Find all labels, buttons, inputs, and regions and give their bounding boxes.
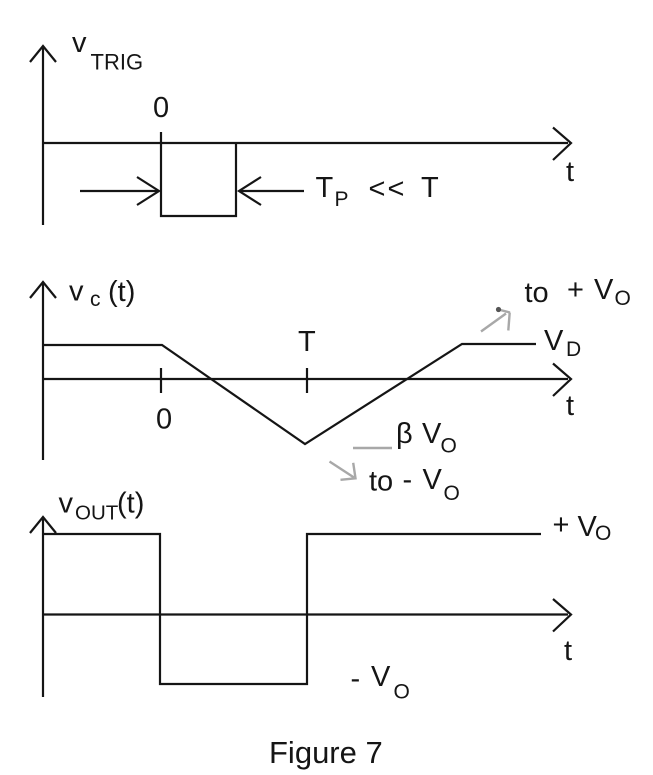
svg-text:0: 0 [156, 404, 172, 436]
svg-text:T: T [316, 172, 334, 204]
svg-text:T: T [298, 326, 316, 358]
svg-text:v: v [69, 276, 84, 308]
svg-text:O: O [615, 287, 631, 310]
svg-text:(t): (t) [117, 488, 144, 520]
svg-text:O: O [394, 681, 410, 704]
svg-text:v: v [72, 27, 87, 59]
svg-text:<: < [369, 173, 386, 205]
svg-text:v: v [59, 488, 74, 520]
svg-text:c: c [90, 288, 101, 311]
svg-text:V: V [371, 661, 391, 693]
svg-text:OUT: OUT [75, 502, 119, 525]
svg-text:to: to [369, 466, 393, 498]
svg-text:+: + [553, 509, 570, 541]
svg-text:T: T [421, 172, 439, 204]
svg-text:Figure 7: Figure 7 [269, 735, 383, 770]
svg-text:V: V [422, 418, 442, 450]
svg-text:t: t [566, 390, 574, 422]
svg-text:V: V [423, 464, 443, 496]
svg-text:V: V [594, 274, 614, 306]
svg-text:V: V [544, 325, 564, 357]
svg-text:to: to [525, 277, 549, 309]
svg-text:O: O [441, 435, 457, 458]
svg-text:-: - [403, 464, 413, 496]
svg-text:(t): (t) [108, 276, 135, 308]
svg-text:t: t [564, 635, 572, 667]
svg-text:O: O [595, 522, 611, 545]
svg-text:P: P [335, 188, 349, 211]
svg-text:O: O [444, 482, 460, 505]
svg-text:-: - [351, 663, 361, 695]
svg-text:D: D [566, 338, 581, 361]
svg-text:+: + [567, 274, 584, 306]
svg-text:0: 0 [153, 92, 169, 124]
svg-text:<: < [388, 173, 405, 205]
svg-text:t: t [566, 156, 574, 188]
svg-text:β: β [396, 418, 413, 450]
svg-text:TRIG: TRIG [91, 50, 144, 75]
